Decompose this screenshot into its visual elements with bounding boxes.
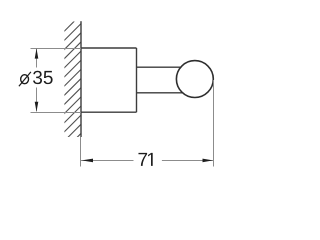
arrowhead 71 left xyxy=(82,159,93,163)
stem top line xyxy=(137,66,183,68)
stem bottom line xyxy=(137,92,185,94)
flange rectangle bottom edge xyxy=(81,111,137,113)
extension line: wall face down to 71 dimension line xyxy=(80,137,82,167)
wall face line xyxy=(80,21,82,137)
dimension line Ø35 lower segment xyxy=(36,88,38,112)
label 35 digit 3 xyxy=(33,71,42,84)
dimension line 71 left segment xyxy=(81,160,134,162)
arrowhead Ø35 down xyxy=(35,102,39,112)
arrowhead 71 right xyxy=(203,159,213,163)
diameter symbol slash xyxy=(19,72,31,86)
arrowhead Ø35 up xyxy=(35,48,39,58)
label 35 digit 5 xyxy=(44,71,53,84)
extension line: flange bottom, left of wall xyxy=(31,112,82,114)
extension line: flange top, left of wall xyxy=(31,48,82,50)
flange rectangle right edge xyxy=(136,48,138,112)
ball (circle) xyxy=(176,61,213,98)
label 71 digit 1 xyxy=(148,153,153,166)
wall hatching xyxy=(44,1,95,171)
dimension line 71 right segment xyxy=(162,160,214,162)
dimension line Ø35 upper segment xyxy=(36,49,38,68)
diameter symbol ring xyxy=(21,75,29,84)
extension line: ball right tangent down to 71 dimension line xyxy=(213,80,215,167)
flange rectangle top edge xyxy=(81,47,137,49)
label 71 digit 7 xyxy=(138,153,147,166)
